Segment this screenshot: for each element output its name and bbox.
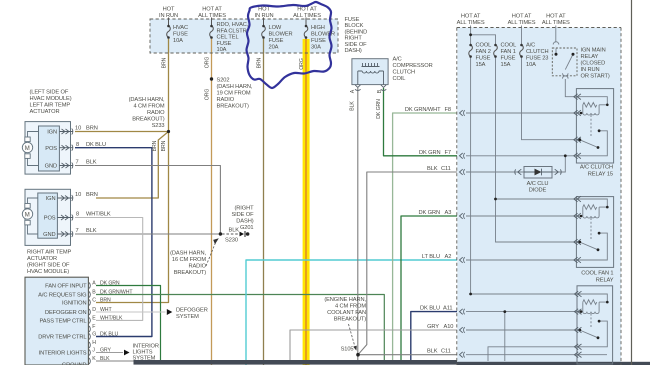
svg-text:BLOWER: BLOWER bbox=[269, 32, 293, 38]
svg-text:HOT: HOT bbox=[258, 7, 270, 13]
svg-text:FUSE: FUSE bbox=[476, 56, 491, 62]
svg-text:(DASH HARN,: (DASH HARN, bbox=[170, 251, 206, 257]
svg-text:COOL: COOL bbox=[476, 43, 492, 49]
svg-text:HVAC: HVAC bbox=[173, 25, 188, 31]
svg-text:BLK: BLK bbox=[350, 101, 356, 111]
svg-text:BREAKOUT): BREAKOUT) bbox=[217, 104, 249, 110]
svg-text:BLK: BLK bbox=[427, 166, 438, 172]
svg-text:ORG: ORG bbox=[204, 89, 210, 101]
svg-text:BLK: BLK bbox=[86, 228, 97, 234]
svg-text:8: 8 bbox=[76, 142, 79, 148]
svg-text:E: E bbox=[92, 315, 96, 321]
svg-text:15A: 15A bbox=[476, 62, 486, 68]
svg-text:BREAKOUT): BREAKOUT) bbox=[174, 270, 206, 276]
svg-text:HOT: HOT bbox=[163, 7, 175, 13]
svg-text:ALL TIMES: ALL TIMES bbox=[457, 20, 485, 26]
svg-text:WHT/BLK: WHT/BLK bbox=[86, 212, 111, 218]
svg-text:F8: F8 bbox=[445, 107, 451, 113]
svg-text:A/C CLU: A/C CLU bbox=[527, 181, 549, 187]
svg-text:RFA CLSTR,: RFA CLSTR, bbox=[217, 28, 249, 34]
svg-text:RIGHT: RIGHT bbox=[345, 36, 363, 42]
svg-text:BREAKOUT): BREAKOUT) bbox=[334, 317, 366, 323]
svg-text:HOT AT: HOT AT bbox=[297, 7, 317, 13]
svg-text:A11: A11 bbox=[443, 306, 452, 312]
svg-text:7: 7 bbox=[76, 228, 79, 234]
svg-text:GND: GND bbox=[43, 232, 55, 238]
svg-text:A: A bbox=[92, 281, 96, 287]
svg-text:M: M bbox=[25, 146, 30, 152]
svg-text:A/C REQUEST SIG: A/C REQUEST SIG bbox=[38, 293, 86, 299]
svg-text:DEFOGGER: DEFOGGER bbox=[176, 308, 208, 314]
svg-text:DEFOGGER ON: DEFOGGER ON bbox=[45, 310, 87, 316]
svg-text:DK GRN/WHT: DK GRN/WHT bbox=[100, 290, 133, 296]
svg-text:HIGH: HIGH bbox=[311, 25, 325, 31]
svg-text:IGN: IGN bbox=[46, 196, 56, 202]
svg-text:ACTUATOR: ACTUATOR bbox=[30, 109, 60, 115]
svg-text:BRN: BRN bbox=[256, 57, 262, 68]
svg-text:(LEFT SIDE OF: (LEFT SIDE OF bbox=[30, 90, 69, 96]
svg-text:BRN: BRN bbox=[161, 140, 167, 151]
svg-text:COIL: COIL bbox=[393, 76, 406, 82]
svg-text:10A: 10A bbox=[217, 47, 227, 53]
svg-text:A/C: A/C bbox=[526, 43, 535, 49]
svg-text:(DASH HARN,: (DASH HARN, bbox=[217, 84, 253, 90]
svg-text:RADIO: RADIO bbox=[147, 110, 165, 116]
svg-text:DK GRN/WHT: DK GRN/WHT bbox=[405, 107, 441, 113]
svg-text:CLUTCH: CLUTCH bbox=[526, 49, 548, 55]
svg-text:FUSE: FUSE bbox=[501, 56, 516, 62]
svg-text:BRN: BRN bbox=[100, 298, 111, 304]
svg-text:G201: G201 bbox=[240, 225, 254, 231]
svg-text:(BEHIND: (BEHIND bbox=[345, 29, 368, 35]
svg-text:10: 10 bbox=[75, 192, 81, 198]
svg-text:BRN: BRN bbox=[86, 192, 98, 198]
svg-text:RELAY: RELAY bbox=[581, 54, 599, 60]
svg-text:(DASH HARN,: (DASH HARN, bbox=[129, 97, 165, 103]
svg-text:HVAC MODULE): HVAC MODULE) bbox=[30, 96, 72, 102]
svg-text:20A: 20A bbox=[269, 45, 279, 51]
svg-text:WHT: WHT bbox=[100, 307, 112, 313]
svg-text:FAN 2: FAN 2 bbox=[476, 49, 491, 55]
svg-text:19 CM FROM: 19 CM FROM bbox=[217, 91, 251, 97]
svg-text:BLK: BLK bbox=[229, 228, 240, 234]
svg-text:HOT AT: HOT AT bbox=[512, 14, 532, 20]
svg-text:IGN MAIN: IGN MAIN bbox=[581, 48, 606, 54]
svg-text:IN RUN: IN RUN bbox=[581, 67, 600, 73]
svg-text:16 CM FROM: 16 CM FROM bbox=[172, 257, 206, 263]
svg-text:ALL TIMES: ALL TIMES bbox=[198, 13, 226, 19]
svg-text:S202: S202 bbox=[217, 78, 230, 84]
svg-text:BLK: BLK bbox=[427, 349, 438, 355]
svg-text:FUSE: FUSE bbox=[173, 32, 188, 38]
svg-text:PASS TEMP CTRL: PASS TEMP CTRL bbox=[40, 318, 87, 324]
svg-text:RELAY 15: RELAY 15 bbox=[588, 172, 613, 178]
svg-text:A10: A10 bbox=[444, 324, 454, 330]
svg-text:FAN 1: FAN 1 bbox=[501, 49, 516, 55]
svg-text:A2: A2 bbox=[445, 254, 452, 260]
svg-text:DK GRN: DK GRN bbox=[100, 281, 120, 287]
svg-text:IN RUN: IN RUN bbox=[255, 13, 274, 19]
svg-text:HOT AT: HOT AT bbox=[546, 14, 566, 20]
svg-text:4 CM FROM: 4 CM FROM bbox=[335, 304, 366, 310]
svg-text:DK GRN: DK GRN bbox=[376, 99, 382, 119]
svg-text:(RIGHT SIDE OF: (RIGHT SIDE OF bbox=[27, 263, 70, 269]
svg-text:OR START): OR START) bbox=[581, 74, 610, 80]
svg-text:GND: GND bbox=[45, 164, 57, 170]
svg-text:BRN: BRN bbox=[86, 126, 98, 132]
svg-text:DK BLU: DK BLU bbox=[420, 306, 440, 312]
svg-text:FUSE: FUSE bbox=[217, 41, 232, 47]
svg-text:GRY: GRY bbox=[427, 324, 439, 330]
svg-text:C11: C11 bbox=[441, 166, 451, 172]
svg-text:LOW: LOW bbox=[269, 25, 282, 31]
svg-text:DK BLU: DK BLU bbox=[86, 142, 106, 148]
svg-text:IN RUN: IN RUN bbox=[159, 13, 178, 19]
svg-text:FUSE: FUSE bbox=[345, 17, 360, 23]
svg-text:B: B bbox=[92, 290, 96, 296]
svg-text:RADIO: RADIO bbox=[188, 264, 206, 270]
svg-text:DK GRN: DK GRN bbox=[418, 210, 440, 216]
svg-text:IGNITION: IGNITION bbox=[62, 301, 86, 307]
svg-text:DK BLU: DK BLU bbox=[100, 332, 118, 338]
svg-text:F: F bbox=[92, 324, 95, 330]
svg-text:COMPRESSOR: COMPRESSOR bbox=[393, 63, 433, 69]
svg-text:8: 8 bbox=[76, 212, 79, 218]
svg-text:CEL TEL: CEL TEL bbox=[217, 35, 239, 41]
svg-text:ACTUATOR: ACTUATOR bbox=[27, 256, 57, 262]
svg-text:4 CM FROM: 4 CM FROM bbox=[133, 104, 164, 110]
svg-text:COOLANT FAN: COOLANT FAN bbox=[327, 310, 366, 316]
svg-text:ALL TIMES: ALL TIMES bbox=[542, 20, 570, 26]
svg-text:HOT AT: HOT AT bbox=[202, 7, 222, 13]
svg-text:FUSE: FUSE bbox=[269, 38, 284, 44]
svg-text:15A: 15A bbox=[501, 62, 511, 68]
svg-text:H: H bbox=[92, 340, 96, 346]
svg-text:BREAKOUT): BREAKOUT) bbox=[132, 117, 164, 123]
svg-text:RADIO: RADIO bbox=[217, 97, 235, 103]
svg-text:WHT/BLK: WHT/BLK bbox=[100, 315, 123, 321]
svg-text:POS: POS bbox=[44, 216, 56, 222]
svg-text:S230: S230 bbox=[225, 238, 238, 244]
svg-text:ORG: ORG bbox=[299, 58, 305, 70]
svg-text:G: G bbox=[92, 332, 96, 338]
svg-text:ORG: ORG bbox=[204, 57, 210, 69]
svg-text:DASH): DASH) bbox=[345, 48, 362, 54]
svg-text:7: 7 bbox=[76, 160, 79, 166]
svg-text:(CLOSED: (CLOSED bbox=[581, 61, 606, 67]
svg-text:30A: 30A bbox=[311, 45, 321, 51]
svg-text:ALL TIMES: ALL TIMES bbox=[508, 20, 536, 26]
svg-text:FUSE: FUSE bbox=[311, 38, 326, 44]
svg-text:BLK: BLK bbox=[100, 356, 110, 362]
svg-text:C11: C11 bbox=[441, 349, 451, 355]
svg-text:(ENGINE HARN,: (ENGINE HARN, bbox=[324, 297, 366, 303]
svg-text:ALL TIMES: ALL TIMES bbox=[293, 13, 321, 19]
svg-text:INTERIOR LIGHTS: INTERIOR LIGHTS bbox=[39, 351, 87, 357]
svg-text:COOL: COOL bbox=[501, 43, 517, 49]
svg-text:FUSE 23: FUSE 23 bbox=[526, 56, 548, 62]
svg-text:10A: 10A bbox=[173, 38, 183, 44]
svg-text:F7: F7 bbox=[445, 150, 451, 156]
svg-text:RELAY: RELAY bbox=[596, 278, 614, 284]
svg-text:A/C CLUTCH: A/C CLUTCH bbox=[580, 165, 613, 171]
svg-text:HOT AT: HOT AT bbox=[461, 14, 481, 20]
svg-text:GRY: GRY bbox=[100, 348, 111, 354]
svg-text:FAN OFF INPUT: FAN OFF INPUT bbox=[45, 284, 87, 290]
svg-text:COOL FAN 1: COOL FAN 1 bbox=[581, 271, 613, 277]
svg-text:RDO, HVAC,: RDO, HVAC, bbox=[217, 22, 249, 28]
svg-text:BRN: BRN bbox=[152, 140, 158, 151]
svg-text:CLUTCH: CLUTCH bbox=[393, 70, 415, 76]
svg-text:POS: POS bbox=[45, 146, 57, 152]
svg-text:SIDE OF: SIDE OF bbox=[231, 212, 254, 218]
svg-text:IGN: IGN bbox=[47, 130, 57, 136]
svg-text:LT BLU: LT BLU bbox=[422, 254, 440, 260]
svg-text:RIGHT AIR TEMP: RIGHT AIR TEMP bbox=[27, 250, 72, 256]
svg-text:LEFT AIR TEMP: LEFT AIR TEMP bbox=[30, 103, 71, 109]
svg-text:A/C: A/C bbox=[393, 57, 402, 63]
svg-text:SYSTEM: SYSTEM bbox=[176, 314, 199, 320]
svg-text:SIDE OF: SIDE OF bbox=[345, 42, 368, 48]
svg-text:J: J bbox=[92, 348, 95, 354]
svg-text:HVAC MODULE): HVAC MODULE) bbox=[27, 269, 69, 275]
svg-text:10A: 10A bbox=[526, 62, 536, 68]
svg-text:C: C bbox=[92, 298, 96, 304]
svg-text:SYSTEM: SYSTEM bbox=[133, 355, 156, 361]
svg-text:10: 10 bbox=[75, 126, 81, 132]
svg-text:D: D bbox=[92, 307, 96, 313]
svg-text:BLOCK: BLOCK bbox=[345, 23, 364, 29]
svg-text:(RIGHT: (RIGHT bbox=[235, 206, 255, 212]
svg-text:S233: S233 bbox=[152, 123, 165, 129]
svg-text:DASH): DASH) bbox=[236, 219, 253, 225]
svg-text:DRVR TEMP CTRL: DRVR TEMP CTRL bbox=[38, 335, 86, 341]
svg-text:M: M bbox=[25, 213, 30, 219]
svg-text:S105: S105 bbox=[341, 347, 354, 353]
svg-text:A3: A3 bbox=[445, 210, 452, 216]
svg-text:BLK: BLK bbox=[86, 160, 97, 166]
svg-text:K: K bbox=[92, 356, 96, 362]
svg-text:BRN: BRN bbox=[161, 57, 167, 68]
svg-text:DK GRN: DK GRN bbox=[419, 150, 441, 156]
svg-text:DIODE: DIODE bbox=[529, 188, 547, 194]
